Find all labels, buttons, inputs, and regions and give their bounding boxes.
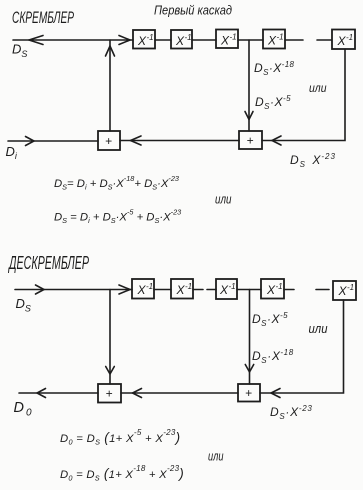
svg-text:+: + [105,134,112,148]
svg-text:Первый каскад: Первый каскад [154,4,232,18]
svg-text:или: или [309,321,328,336]
svg-text:или: или [215,193,232,207]
svg-text:+: + [247,134,254,148]
svg-text:или: или [208,450,224,464]
svg-text:ДЕСКРЕМБЛЕР: ДЕСКРЕМБЛЕР [8,253,89,273]
svg-text:+: + [245,386,252,400]
svg-text:+: + [106,387,113,401]
svg-text:СКРЕМБЛЕР: СКРЕМБЛЕР [12,9,74,27]
svg-text:или: или [309,81,327,95]
